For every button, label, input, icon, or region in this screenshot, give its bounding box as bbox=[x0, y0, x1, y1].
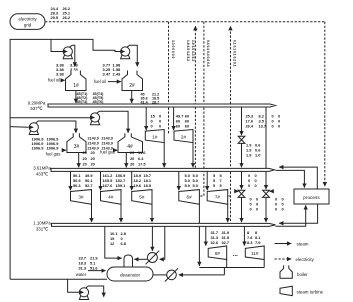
water inflow values bbox=[79, 256, 99, 271]
electricity dashed line turbine 2 (to grid) bbox=[194, 26, 196, 168]
LP wire into valve side bbox=[160, 226, 165, 259]
steam turbine 8# bbox=[208, 246, 227, 260]
letdown A2 outlet wire bbox=[241, 197, 243, 222]
svg-text:20: 20 bbox=[130, 150, 134, 155]
steam turbine 3# bbox=[71, 190, 92, 205]
turbine 7 exhaust wire bbox=[227, 204, 229, 222]
svg-text:deaerator: deaerator bbox=[120, 273, 141, 278]
svg-text:11.6: 11.6 bbox=[138, 150, 146, 155]
legend steam turbine icon bbox=[280, 286, 292, 295]
fan F3 discharge wire bbox=[97, 111, 129, 133]
svg-text:fuel gas: fuel gas bbox=[46, 151, 61, 156]
svg-text:537℃: 537℃ bbox=[30, 106, 42, 111]
turbine 7 inlet wire bbox=[206, 171, 208, 190]
svg-text:electricity: electricity bbox=[296, 257, 315, 262]
steam turbine 4# bbox=[101, 190, 122, 205]
svg-text:0: 0 bbox=[159, 124, 161, 129]
svg-text:grid: grid bbox=[24, 22, 32, 27]
svg-text:8.3: 8.3 bbox=[247, 240, 253, 245]
svg-text:8#: 8# bbox=[215, 251, 221, 256]
condensate downcomer wire bbox=[223, 268, 225, 275]
boiler 1 fuel values bbox=[56, 63, 79, 77]
svg-text:159.1: 159.1 bbox=[116, 183, 127, 188]
fan F4 (boiler 3 draft fan) bbox=[29, 123, 38, 135]
svg-text:6#: 6# bbox=[186, 195, 192, 200]
svg-text:167.6: 167.6 bbox=[103, 183, 114, 188]
svg-text:31.3: 31.3 bbox=[79, 266, 87, 271]
turbine 8 values bbox=[211, 230, 230, 245]
pump discharge wire bbox=[86, 286, 104, 297]
letdown A2 zeros bbox=[248, 173, 257, 188]
LP steam supply wire to process bbox=[276, 205, 306, 226]
svg-text:6.4: 6.4 bbox=[138, 156, 144, 161]
legend electricity arrow bbox=[275, 258, 292, 260]
steam turbine 1# bbox=[145, 130, 164, 143]
svg-text:20: 20 bbox=[91, 162, 95, 167]
letdown A lower wire into MP header bbox=[241, 143, 243, 167]
boiler 2 steam wire to HP header bbox=[131, 91, 133, 103]
boiler 3 steam wire to MP header bbox=[78, 153, 80, 168]
turbine 7 values bbox=[213, 173, 223, 188]
turbine 6 values bbox=[185, 173, 198, 188]
svg-text:...: ... bbox=[233, 252, 238, 258]
svg-text:331℃: 331℃ bbox=[36, 226, 48, 231]
deaerator steam values bbox=[110, 231, 127, 246]
turbine 11 inlet wire bbox=[243, 226, 245, 245]
steam turbine 6# bbox=[179, 190, 200, 205]
fan F1 discharge wire bbox=[69, 45, 74, 66]
svg-text:steam turbine: steam turbine bbox=[297, 289, 324, 294]
turbine 8 inlet wire bbox=[205, 226, 207, 245]
svg-text:3#: 3# bbox=[74, 144, 80, 150]
svg-text:0: 0 bbox=[255, 183, 257, 188]
boiler 4 steam values bbox=[130, 150, 146, 166]
deaerator dome bbox=[124, 255, 133, 267]
turbine 11 values bbox=[247, 230, 261, 245]
turbine 11 exhaust wire bbox=[263, 260, 265, 268]
svg-text:9.20MPa: 9.20MPa bbox=[28, 100, 46, 105]
svg-text:1.9: 1.9 bbox=[246, 153, 252, 158]
condensate return wire to valve bbox=[179, 274, 225, 276]
turbine 3 exhaust wire bbox=[91, 204, 93, 222]
boiler 3 steam values bbox=[83, 150, 95, 166]
svg-text:45(T3): 45(T3) bbox=[77, 100, 89, 104]
fuel gas arrow boiler 4 bbox=[115, 149, 118, 151]
LP steam return wire from process bbox=[279, 204, 317, 223]
svg-text:4#: 4# bbox=[108, 195, 114, 200]
svg-text:1#: 1# bbox=[152, 135, 158, 140]
svg-text:1.0: 1.0 bbox=[255, 153, 260, 158]
svg-text:20: 20 bbox=[130, 156, 134, 161]
electricity dashed stub turbine 7 bbox=[228, 195, 230, 197]
turbine 6 exhaust wire to condensate bbox=[198, 204, 200, 266]
svg-text:20: 20 bbox=[83, 162, 87, 167]
svg-text:11#: 11# bbox=[251, 251, 259, 256]
svg-text:1.8 4.5 4.2 5.2: 1.8 4.5 4.2 5.2 bbox=[186, 40, 190, 61]
svg-text:60: 60 bbox=[185, 124, 189, 129]
svg-text:fuel oil: fuel oil bbox=[48, 78, 60, 83]
MP steam supply wire to process bbox=[276, 170, 305, 187]
LP wire into valve top bbox=[151, 226, 153, 251]
svg-text:2143.9: 2143.9 bbox=[88, 142, 99, 146]
svg-text:32.6: 32.6 bbox=[211, 240, 219, 245]
boiler 4# bbox=[118, 133, 143, 152]
svg-text:5.0: 5.0 bbox=[193, 183, 198, 188]
turbine 4 exhaust wire bbox=[120, 204, 122, 222]
control valve CV1 (deaerator steam) bbox=[146, 251, 160, 265]
turbine 5 inlet wire bbox=[131, 171, 133, 190]
boiler 1 steam values bbox=[77, 92, 105, 104]
air branch to fan F1 bbox=[51, 39, 63, 51]
svg-text:0: 0 bbox=[272, 124, 274, 129]
svg-text:water: water bbox=[76, 272, 87, 277]
svg-text:0: 0 bbox=[248, 183, 250, 188]
svg-text:5#: 5# bbox=[139, 195, 145, 200]
svg-text:52.7: 52.7 bbox=[85, 183, 93, 188]
boiler 3 fuel values bbox=[32, 137, 60, 151]
turbine 3 values bbox=[73, 173, 93, 188]
fan F2 (boiler 2 draft fan) bbox=[121, 47, 130, 59]
letdown B upper wire bbox=[265, 107, 267, 189]
turbine 4 inlet wire bbox=[100, 171, 102, 190]
fan F3 (boiler 4 draft fan) bbox=[90, 113, 99, 125]
svg-text:steam: steam bbox=[297, 242, 309, 247]
letdown A zeros right bbox=[272, 114, 281, 129]
valve CV1 outlet wire to dome bbox=[134, 258, 147, 260]
svg-text:1.10MPa: 1.10MPa bbox=[33, 221, 51, 226]
fan F2 discharge wire bbox=[127, 45, 138, 66]
boiler 4 steam wire to MP header bbox=[125, 153, 127, 168]
letdown A2 wire bbox=[241, 171, 243, 189]
turbine 8 exhaust wire bbox=[226, 260, 228, 268]
legend boiler icon bbox=[280, 265, 292, 278]
fan F1 (boiler 1 draft fan) bbox=[63, 47, 72, 59]
letdown valve V2 (3.61->1.10) bbox=[238, 190, 245, 197]
boiler 1 steam wire to HP header bbox=[75, 91, 77, 103]
turbine 5 values bbox=[134, 173, 152, 188]
letdown B outlet wire bbox=[265, 197, 267, 222]
grid electricity values bbox=[51, 6, 71, 20]
condensate wire valve to deaerator bbox=[153, 274, 167, 276]
svg-text:0: 0 bbox=[256, 207, 258, 212]
steam turbine 11# bbox=[245, 246, 264, 260]
boiler 1# bbox=[66, 71, 87, 91]
control valve CV2 (condensate return) bbox=[165, 268, 178, 281]
svg-text:20: 20 bbox=[91, 150, 95, 155]
svg-text:18.5: 18.5 bbox=[144, 183, 152, 188]
fan F4 discharge wire bbox=[35, 121, 76, 133]
steam turbine 7# bbox=[207, 190, 228, 205]
steam turbine 5# bbox=[132, 190, 152, 205]
electricity dashed line turbine 1 bbox=[168, 22, 170, 134]
svg-text:20: 20 bbox=[91, 156, 95, 161]
electricity dashed line motors A bbox=[200, 22, 204, 196]
svg-text:2#: 2# bbox=[129, 83, 135, 89]
svg-text:0: 0 bbox=[151, 124, 153, 129]
feedwater pump P1 bbox=[79, 288, 88, 300]
svg-text:fuel oil: fuel oil bbox=[94, 79, 106, 84]
letdown valve A2 side stub bbox=[235, 190, 239, 192]
svg-text:2143.9: 2143.9 bbox=[102, 137, 113, 141]
svg-text:7.9: 7.9 bbox=[255, 240, 261, 245]
electricity main dashed line from grid bbox=[45, 21, 325, 23]
turbine 2 inlet wire bbox=[173, 107, 175, 130]
svg-text:2143.9: 2143.9 bbox=[102, 142, 113, 146]
legend steam arrow bbox=[275, 243, 292, 245]
air wire to fan F3 bbox=[10, 117, 90, 119]
air wire to fan F4 bbox=[10, 126, 28, 129]
turbine 4 values bbox=[103, 173, 127, 188]
boiler 3# bbox=[67, 133, 86, 152]
svg-text:50.3: 50.3 bbox=[73, 183, 81, 188]
svg-text:20: 20 bbox=[83, 156, 87, 161]
svg-text:1906.9: 1906.9 bbox=[47, 146, 60, 151]
svg-text:17.5: 17.5 bbox=[138, 162, 146, 167]
fuel oil arrow boiler 2 bbox=[108, 81, 121, 83]
electricity dashed line to process bbox=[324, 22, 326, 186]
HP steam header 9.20MPa bar bbox=[48, 104, 276, 107]
turbine 2 exhaust wire bbox=[192, 143, 194, 168]
boiler 2 fuel values bbox=[103, 63, 122, 77]
svg-text:20: 20 bbox=[83, 150, 87, 155]
electricity dashed line turbines right (to grid) bbox=[230, 26, 232, 221]
electricity grid node bbox=[10, 14, 45, 30]
letdown A upper values bbox=[246, 114, 267, 129]
svg-text:3.47: 3.47 bbox=[103, 72, 112, 77]
svg-text:20: 20 bbox=[130, 162, 134, 167]
pump suction wire bbox=[68, 279, 80, 292]
svg-text:0: 0 bbox=[250, 207, 252, 212]
svg-text:26.2: 26.2 bbox=[63, 15, 71, 20]
svg-text:5.0: 5.0 bbox=[185, 183, 190, 188]
boiler 2# bbox=[122, 71, 143, 91]
deaerator vessel bbox=[107, 267, 153, 281]
water arrow into deaerator bbox=[88, 270, 106, 272]
letdown valve V3 side stub bbox=[270, 190, 274, 192]
svg-text:29.5: 29.5 bbox=[51, 15, 59, 20]
svg-text:2143.9: 2143.9 bbox=[88, 137, 99, 141]
svg-text:2.43: 2.43 bbox=[113, 72, 122, 77]
svg-text:process: process bbox=[303, 195, 320, 200]
svg-text:3.61MPa: 3.61MPa bbox=[33, 166, 51, 171]
LP steam header 1.10MPa bar bbox=[52, 223, 276, 226]
boiler 4 fuel values bbox=[88, 137, 113, 151]
svg-text:fuel gas: fuel gas bbox=[100, 149, 115, 154]
letdown valve V1 (9.2->3.61) bbox=[238, 136, 245, 143]
svg-text:7#: 7# bbox=[215, 195, 221, 200]
boiler 2 steam values bbox=[141, 93, 160, 105]
svg-text:1#: 1# bbox=[73, 83, 79, 89]
condensate header wire bbox=[199, 267, 264, 269]
svg-text:3#: 3# bbox=[78, 195, 84, 200]
svg-text:45(T6): 45(T6) bbox=[93, 100, 105, 104]
svg-text:26.4: 26.4 bbox=[246, 124, 254, 129]
air supply frame wire bbox=[10, 39, 120, 279]
MP steam return wire from process bbox=[279, 167, 317, 189]
svg-text:433℃: 433℃ bbox=[36, 171, 48, 176]
svg-text:electricity: electricity bbox=[18, 17, 37, 22]
svg-text:boiler: boiler bbox=[297, 272, 308, 277]
LP wire to deaerator dome left bbox=[105, 226, 122, 258]
letdown B outlet zeros bbox=[275, 197, 284, 212]
turbine 1 inlet wire bbox=[145, 107, 147, 130]
svg-text:3.3 0 0 0 0 0: 3.3 0 0 0 0 0 bbox=[171, 40, 175, 58]
turbine 5 exhaust wire bbox=[151, 204, 153, 222]
svg-text:0.4 0.4 0.4 0.4 0.4: 0.4 0.4 0.4 0.4 0.4 bbox=[206, 40, 210, 67]
svg-text:0: 0 bbox=[275, 207, 277, 212]
letdown A flow values bbox=[246, 143, 261, 158]
turbine 6 inlet wire bbox=[178, 171, 180, 190]
process node bbox=[294, 189, 329, 204]
turbine 1 values bbox=[151, 114, 162, 129]
svg-text:3.38: 3.38 bbox=[56, 72, 65, 77]
svg-text:0: 0 bbox=[278, 124, 280, 129]
svg-text:0: 0 bbox=[282, 207, 284, 212]
svg-text:60: 60 bbox=[176, 124, 180, 129]
svg-text:1.9 1.5 4.3 5.3: 1.9 1.5 4.3 5.3 bbox=[191, 40, 195, 61]
turbine 1 exhaust wire bbox=[163, 143, 165, 168]
water main wire bbox=[10, 278, 107, 280]
turbine 2 values bbox=[176, 114, 189, 129]
letdown A2 outlet zeros bbox=[250, 197, 259, 212]
svg-text:1906.9: 1906.9 bbox=[32, 146, 45, 151]
fuel gas arrow boiler 3 bbox=[62, 149, 66, 151]
svg-text:6.8: 6.8 bbox=[121, 241, 127, 246]
letdown valve V3 (9.2->1.10) bbox=[263, 190, 270, 197]
svg-text:2#: 2# bbox=[181, 135, 187, 140]
turbine 3 inlet wire bbox=[70, 171, 72, 190]
svg-text:0.1 0.1 0.1 0.2 0.1: 0.1 0.1 0.1 0.2 0.1 bbox=[232, 40, 236, 67]
svg-text:13.7: 13.7 bbox=[259, 124, 267, 129]
svg-text:32.7: 32.7 bbox=[222, 240, 230, 245]
svg-text:51.6: 51.6 bbox=[90, 266, 98, 271]
steam turbine 2# bbox=[174, 130, 193, 143]
MP steam header 3.61MPa bar bbox=[51, 168, 275, 171]
fuel oil arrow boiler 1 bbox=[63, 79, 65, 81]
letdown A upper wire bbox=[241, 107, 243, 135]
svg-text:19.6: 19.6 bbox=[134, 183, 142, 188]
